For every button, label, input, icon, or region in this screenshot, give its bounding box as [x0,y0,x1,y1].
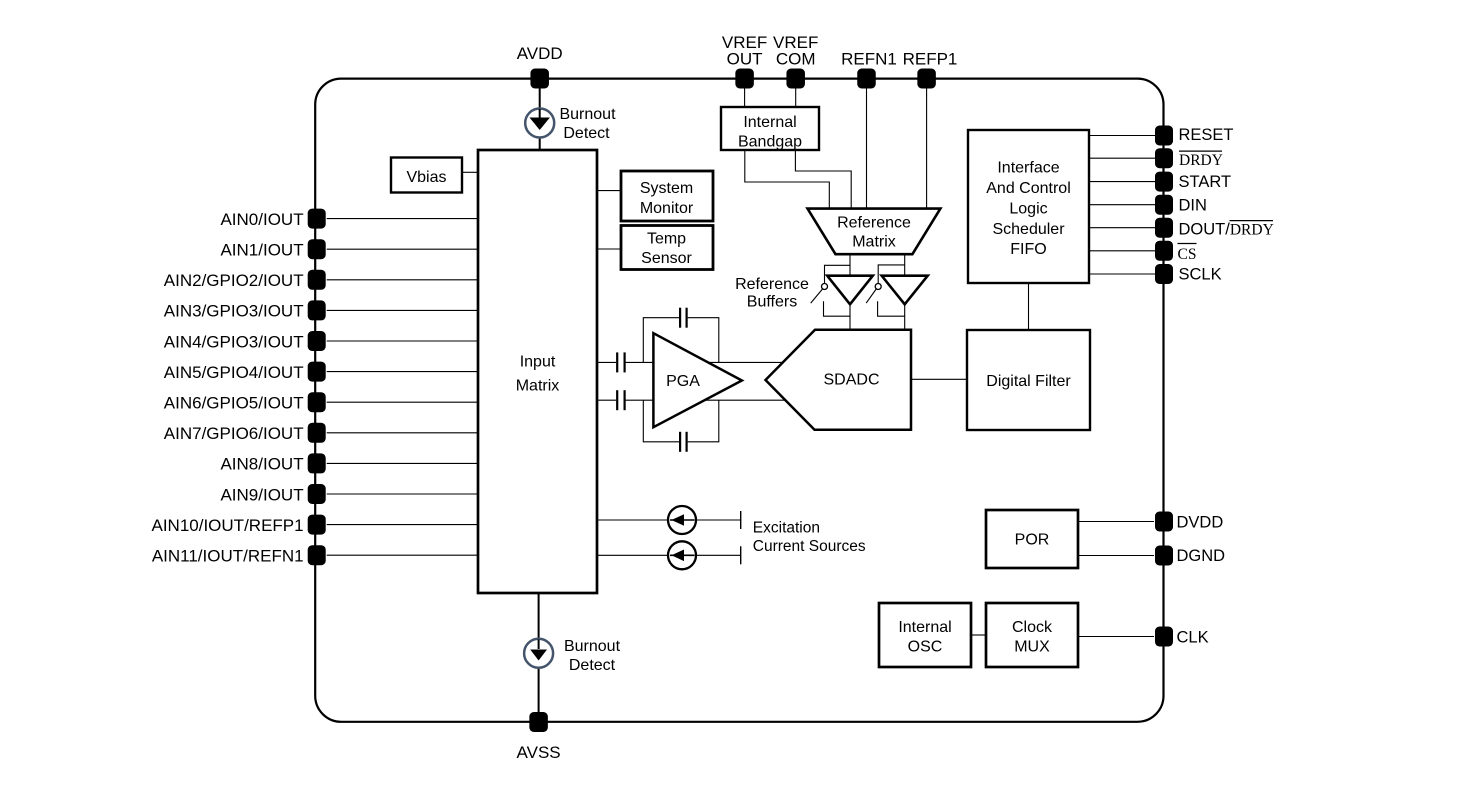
svg-text:AIN4/GPIO3/IOUT: AIN4/GPIO3/IOUT [164,332,304,351]
svg-text:Monitor: Monitor [640,200,694,217]
svg-text:Current Sources: Current Sources [753,538,866,555]
svg-text:DRDY: DRDY [1179,152,1223,169]
svg-text:START: START [1179,173,1232,191]
svg-text:DGND: DGND [1177,547,1226,565]
svg-text:AIN5/GPIO4/IOUT: AIN5/GPIO4/IOUT [164,363,304,382]
svg-text:REFP1: REFP1 [903,50,958,69]
svg-text:Bandgap: Bandgap [738,134,802,151]
svg-text:REFN1: REFN1 [841,50,897,69]
svg-text:AIN7/GPIO6/IOUT: AIN7/GPIO6/IOUT [164,424,304,443]
svg-text:OUT: OUT [727,50,763,69]
svg-text:Reference: Reference [837,215,911,232]
svg-text:And Control: And Control [986,180,1071,197]
svg-text:OSC: OSC [908,639,943,656]
svg-text:MUX: MUX [1014,639,1050,656]
svg-text:Vbias: Vbias [406,169,446,186]
svg-text:Buffers: Buffers [747,294,797,311]
svg-text:Burnout: Burnout [559,106,616,123]
svg-text:Input: Input [520,354,556,371]
svg-text:SDADC: SDADC [823,372,879,389]
svg-text:DOUT/DRDY: DOUT/DRDY [1179,221,1274,239]
svg-text:Internal: Internal [743,114,796,131]
svg-text:Excitation: Excitation [753,520,820,537]
svg-text:System: System [640,180,693,197]
svg-text:Matrix: Matrix [852,234,896,251]
svg-text:AIN8/IOUT: AIN8/IOUT [220,455,303,474]
svg-text:RESET: RESET [1179,126,1234,144]
svg-text:Clock: Clock [1012,619,1053,636]
svg-text:AIN6/GPIO5/IOUT: AIN6/GPIO5/IOUT [164,394,304,413]
svg-text:AIN3/GPIO3/IOUT: AIN3/GPIO3/IOUT [164,302,304,321]
svg-text:Scheduler: Scheduler [992,221,1065,238]
svg-text:Temp: Temp [647,231,686,248]
svg-text:SCLK: SCLK [1179,266,1222,284]
svg-text:Detect: Detect [569,657,616,674]
svg-text:Detect: Detect [563,125,610,142]
svg-text:AIN9/IOUT: AIN9/IOUT [220,485,303,504]
svg-text:CLK: CLK [1177,629,1209,647]
svg-text:AIN11/IOUT/REFN1: AIN11/IOUT/REFN1 [152,547,304,566]
svg-text:FIFO: FIFO [1010,241,1046,258]
svg-text:AVSS: AVSS [517,743,561,762]
svg-text:DIN: DIN [1179,197,1207,215]
svg-text:AIN1/IOUT: AIN1/IOUT [220,241,303,260]
svg-text:AIN2/GPIO2/IOUT: AIN2/GPIO2/IOUT [164,271,304,290]
svg-text:Internal: Internal [898,619,951,636]
svg-text:DVDD: DVDD [1177,513,1224,531]
svg-text:POR: POR [1015,532,1050,549]
svg-text:AIN0/IOUT: AIN0/IOUT [220,210,303,229]
svg-text:Matrix: Matrix [516,378,560,395]
svg-text:CS: CS [1178,246,1197,263]
svg-text:Logic: Logic [1009,201,1047,218]
svg-text:Interface: Interface [997,160,1059,177]
svg-text:AVDD: AVDD [517,44,563,63]
svg-text:Sensor: Sensor [641,250,692,267]
svg-text:PGA: PGA [666,373,700,390]
svg-text:COM: COM [776,50,816,69]
svg-text:Digital Filter: Digital Filter [986,373,1071,390]
svg-text:Burnout: Burnout [564,638,621,655]
svg-text:Reference: Reference [735,276,809,293]
svg-text:AIN10/IOUT/REFP1: AIN10/IOUT/REFP1 [151,516,303,535]
